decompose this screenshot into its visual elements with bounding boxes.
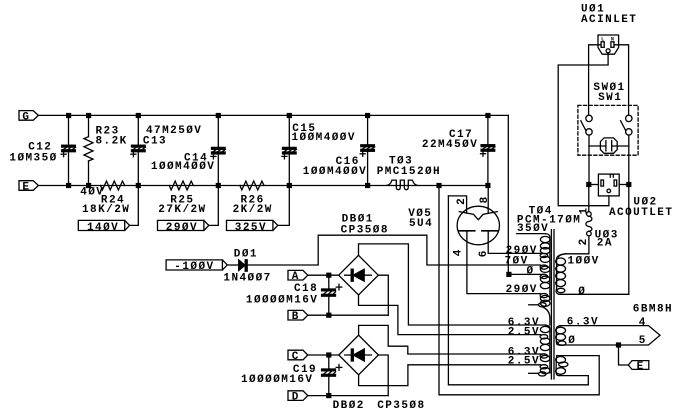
junction G-C12	[66, 113, 71, 118]
junction E-290V	[216, 183, 221, 188]
inductor T03	[387, 180, 418, 190]
node 325V flag and wire	[227, 186, 290, 231]
T04 2.5V tap1 hook	[540, 335, 548, 339]
svg-text:Ø: Ø	[568, 335, 576, 347]
wire DB01 top AC lead to 6.3V tap 1	[359, 244, 545, 325]
U02 top tick	[610, 174, 613, 177]
svg-text:Ø: Ø	[578, 286, 586, 298]
resistor R23	[84, 115, 93, 185]
resistor R25	[169, 181, 193, 190]
junction G-C13	[136, 113, 141, 118]
T04 winding end hook	[539, 303, 547, 307]
T04 primary spine upper	[546, 234, 550, 300]
capacitor C19	[322, 355, 342, 396]
junction G-C14	[216, 113, 221, 118]
capacitor C13	[131, 115, 146, 185]
wire DB02 bottom AC lead to 2.5V tap 2	[359, 365, 541, 386]
junction E-C17-pin8	[485, 183, 490, 188]
T04 secondary bottom winding oval	[559, 362, 568, 367]
svg-text:D: D	[292, 392, 300, 404]
SW01 left pole contacts	[581, 115, 592, 184]
wire 6BM8H pin5 return hook	[557, 342, 560, 345]
junction E-140V	[136, 183, 141, 188]
resistor R26	[240, 181, 264, 190]
U02 ground circle	[607, 189, 611, 193]
svg-text:C18: C18	[294, 283, 318, 295]
svg-text:A: A	[292, 271, 300, 283]
junction E-C12	[66, 183, 71, 188]
T04 secondary 6.3V return hook	[558, 341, 566, 345]
capacitor C17	[481, 115, 496, 185]
svg-text:1ØM35Ø: 1ØM35Ø	[9, 152, 57, 164]
svg-text:4: 4	[453, 248, 465, 256]
svg-text:8: 8	[479, 195, 491, 203]
junction E-R23	[86, 183, 91, 188]
wire U01 N to switch right	[614, 45, 629, 115]
T04 secondary 100V bottom hook	[557, 288, 565, 292]
svg-text:1ØØV: 1ØØV	[568, 255, 600, 267]
svg-text:18K/2W: 18K/2W	[82, 204, 130, 216]
capacitor C15	[282, 115, 297, 185]
svg-text:DØ1: DØ1	[234, 248, 258, 260]
svg-text:CP35Ø8: CP35Ø8	[377, 400, 425, 412]
svg-text:1ØØØØM16V: 1ØØØØM16V	[241, 374, 313, 386]
node -100V flag	[166, 260, 227, 270]
svg-text:1ØØM4ØØV: 1ØØM4ØØV	[151, 161, 215, 173]
T04 70V tap hook	[540, 265, 548, 269]
svg-text:DBØ2: DBØ2	[333, 400, 365, 412]
svg-text:-1ØØV: -1ØØV	[174, 261, 214, 273]
svg-text:Ø: Ø	[527, 266, 535, 278]
T04 6.3V tap2 hook	[540, 354, 548, 358]
junction E-C16	[365, 183, 370, 188]
wire U01 ground to U02 ground	[558, 53, 609, 206]
T04 secondary 6.3V flag winding	[556, 326, 560, 345]
node D terminal flag	[288, 391, 308, 401]
wire pin 6 lead to 290V tap 1	[488, 232, 540, 254]
wire 0 tap riser to G rail	[507, 115, 509, 274]
tube V05 5U4 envelope	[457, 206, 499, 245]
wire B rail	[308, 314, 389, 316]
U02 slots	[601, 180, 604, 186]
svg-text:N: N	[611, 37, 614, 43]
wire pin 4 lead to 290V tap 2	[467, 232, 541, 294]
wire D rail	[308, 395, 388, 397]
junction G-C15	[287, 113, 292, 118]
junction G-C16	[365, 113, 370, 118]
T04 2.5V tap2 hook	[540, 365, 548, 369]
svg-text:C13: C13	[143, 136, 167, 148]
wire -100V to D01	[227, 264, 238, 266]
svg-text:2: 2	[578, 237, 590, 245]
wire 100V return 0	[556, 289, 629, 294]
AC outlet U02 box	[598, 174, 619, 196]
T04 secondary 100V top hook	[557, 254, 566, 289]
junction E-325V	[287, 183, 292, 188]
wire G rail top	[38, 114, 508, 116]
SW01 right pole contacts	[621, 115, 632, 184]
wire 350V stub	[517, 233, 546, 235]
wire outlet stubs	[589, 184, 599, 186]
node A terminal flag	[288, 270, 308, 280]
U01 L slot	[601, 42, 604, 48]
junction B-C18	[326, 313, 331, 318]
wire DB01 bottom AC lead to 2.5V tap 1	[359, 295, 541, 335]
svg-text:2.5V: 2.5V	[508, 356, 540, 368]
junction G-R23	[86, 113, 91, 118]
wire pin 2 lead	[448, 196, 466, 213]
capacitor C18	[322, 275, 342, 315]
node G terminal flag	[19, 111, 38, 121]
T04 secondary bottom winding	[556, 356, 559, 376]
fuse U03	[558, 185, 592, 258]
junction switch left outlet	[586, 182, 591, 187]
svg-text:5U4: 5U4	[409, 218, 433, 230]
junction C-C19	[326, 352, 331, 357]
bridge rectifier DB02	[339, 335, 379, 375]
svg-text:C: C	[292, 351, 300, 363]
svg-text:CP35Ø8: CP35Ø8	[341, 225, 389, 237]
diode D01 1N4007	[239, 260, 248, 271]
svg-text:1ØØM4ØØV: 1ØØM4ØØV	[292, 132, 356, 144]
wire E rail bottom	[38, 185, 488, 187]
transformer T04 core	[550, 230, 552, 379]
wire primary end stub bottom	[529, 372, 539, 374]
wire DB01 right lead to B	[378, 275, 388, 315]
AC inlet U01 outline	[598, 35, 619, 54]
svg-text:22M45ØV: 22M45ØV	[422, 139, 478, 151]
wire pin2 long run to heater winding bottom	[448, 196, 588, 385]
wire D01 output to 70V tap (via two corners)	[247, 235, 540, 265]
svg-text:L: L	[601, 37, 604, 43]
svg-text:1ØØØØM16V: 1ØØØØM16V	[246, 295, 318, 307]
U01 ground circle	[606, 49, 610, 53]
wire U01 L to switch left	[589, 45, 602, 115]
svg-text:1N4ØØ7: 1N4ØØ7	[223, 273, 271, 285]
svg-text:5: 5	[639, 335, 647, 347]
wire DB02 top AC lead to 6.3V tap 2	[359, 325, 545, 354]
wire pin 8 lead to E rail	[487, 186, 489, 214]
svg-text:ACOUTLET: ACOUTLET	[609, 207, 673, 219]
junction A-C18	[326, 273, 331, 278]
svg-text:1ØØM4ØØV: 1ØØM4ØØV	[303, 166, 367, 178]
svg-text:SW1: SW1	[598, 92, 622, 104]
svg-text:2K/2W: 2K/2W	[233, 204, 273, 216]
U01 N slot	[611, 42, 614, 48]
T04 primary heater spine	[546, 325, 550, 373]
svg-text:27K/2W: 27K/2W	[158, 204, 206, 216]
bridge rectifier DB01	[339, 255, 379, 295]
svg-text:325V: 325V	[235, 222, 267, 234]
wire DB02 right lead to D	[378, 355, 388, 396]
capacitor C14	[211, 115, 226, 185]
svg-text:6BM8H: 6BM8H	[633, 304, 673, 316]
T04 0 tap hook	[540, 274, 548, 278]
capacitor C16	[360, 115, 375, 185]
svg-text:ACINLET: ACINLET	[581, 14, 637, 26]
svg-text:2.5V: 2.5V	[508, 326, 540, 338]
svg-text:14ØV: 14ØV	[87, 222, 119, 234]
wire E branch from pin5 wire	[619, 345, 629, 365]
svg-text:4: 4	[639, 317, 647, 329]
junction D-C19	[326, 393, 331, 398]
junction switch right outlet	[626, 182, 631, 187]
svg-text:29ØV: 29ØV	[166, 222, 198, 234]
switch SW01 dashed box	[578, 105, 638, 155]
T04 290V tap1 hook	[540, 253, 548, 257]
svg-text:35ØV: 35ØV	[517, 223, 549, 235]
T04 heater block loops	[540, 326, 550, 332]
SW01 pilot lamp	[589, 138, 629, 153]
node 140V flag and wire	[78, 186, 138, 231]
capacitor C12	[61, 115, 76, 185]
T04 secondary 100V loops	[556, 258, 566, 265]
svg-text:B: B	[292, 311, 300, 323]
svg-text:G: G	[22, 111, 30, 123]
svg-text:6.3V: 6.3V	[567, 316, 599, 328]
node B terminal flag	[288, 310, 308, 320]
tube V05 plate bars	[459, 230, 498, 232]
svg-text:6: 6	[478, 249, 490, 257]
node 290V flag and wire	[158, 186, 219, 231]
T04 primary upper loops	[540, 236, 550, 242]
wire C to DB02 left	[308, 354, 339, 356]
junction 0 tap	[506, 272, 511, 277]
resistor R24	[101, 181, 125, 190]
svg-text:PMC152ØH: PMC152ØH	[377, 166, 441, 178]
T04 winding bottom end hook	[539, 372, 547, 376]
tube V05 filament	[459, 212, 497, 220]
junction E-v4	[436, 183, 441, 188]
svg-text:7ØV: 7ØV	[505, 255, 529, 267]
wire 0 tap	[508, 273, 544, 275]
junction G-C17	[485, 113, 490, 118]
T04 290V tap2 hook	[540, 294, 548, 298]
T04 primary end connector curve	[543, 307, 550, 325]
connector 6BM8H pin4 wire / top edge	[560, 326, 660, 345]
svg-text:2A: 2A	[597, 237, 613, 249]
node C terminal flag	[288, 350, 308, 360]
svg-text:1: 1	[578, 206, 590, 214]
node E right flag	[628, 361, 649, 370]
wire A to DB01 left	[308, 274, 339, 276]
svg-text:2: 2	[456, 197, 468, 205]
svg-text:8.2K: 8.2K	[96, 135, 128, 147]
node E terminal flag	[19, 181, 38, 191]
svg-text:E: E	[637, 361, 645, 373]
svg-text:29ØV: 29ØV	[506, 284, 538, 296]
junction E branch on pin5 wire	[616, 342, 621, 347]
wire E rail junction down via v4 to heater winding top	[439, 186, 599, 395]
wire N pole down to 100V return	[628, 185, 630, 295]
wire primary end stub top	[529, 304, 539, 306]
svg-text:E: E	[22, 181, 30, 193]
